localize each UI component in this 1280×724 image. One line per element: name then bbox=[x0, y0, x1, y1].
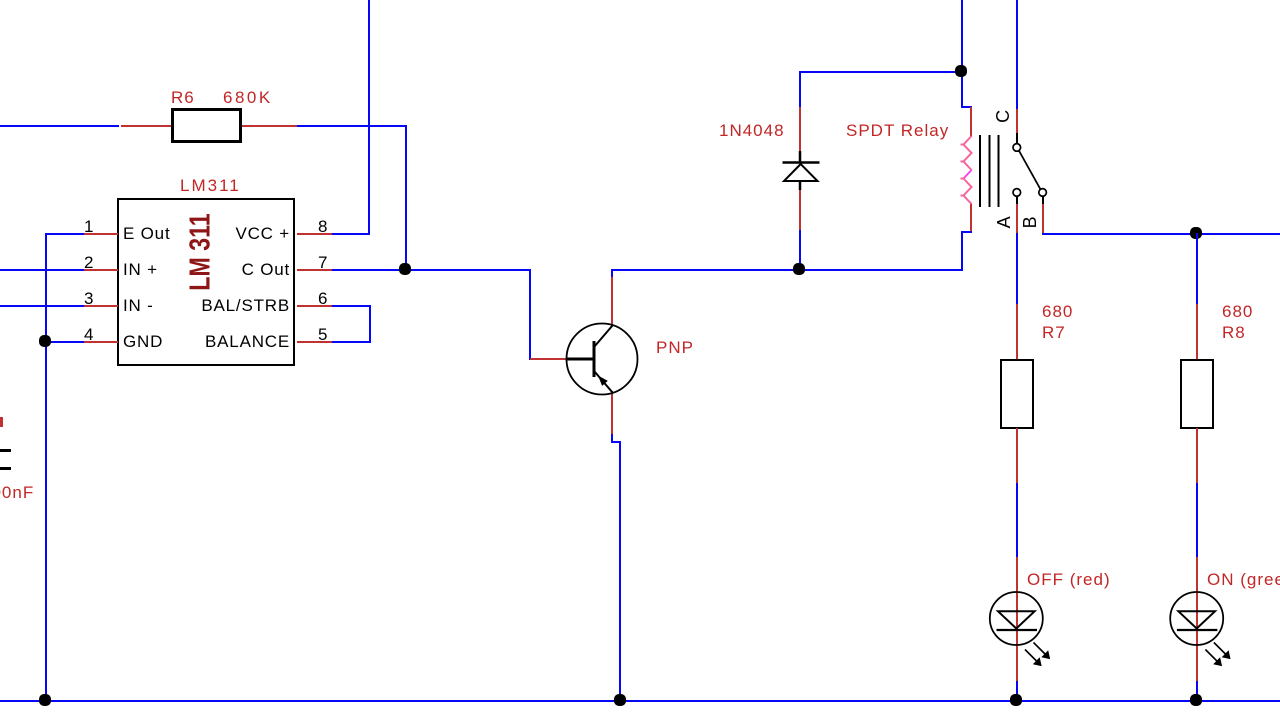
wire: LED1 bottom blue to bus bbox=[1016, 681, 1018, 701]
wire: base vertical drop bbox=[529, 269, 531, 360]
pin 6 number bbox=[318, 290, 328, 307]
wire: collector horizontal to relay bbox=[611, 269, 962, 271]
pin 7 number bbox=[318, 254, 328, 271]
wire: collector red lead bbox=[611, 277, 613, 326]
pin 1 stub bbox=[84, 233, 118, 235]
wire: contact A red lead bbox=[1016, 204, 1018, 233]
wire: emitter vertical to ground bus bbox=[619, 441, 621, 702]
wire: relay bottom blue vertical bbox=[961, 231, 963, 271]
LED D3 ON(green) bbox=[1170, 592, 1230, 666]
wire: contact B black stub bbox=[1042, 196, 1044, 205]
label SPDT Relay bbox=[846, 122, 949, 139]
label 680K bbox=[223, 89, 273, 106]
wire: A vertical blue to R7 bbox=[1016, 233, 1018, 305]
wire: contact C black stub bbox=[1016, 133, 1018, 144]
label R8 bbox=[1222, 324, 1246, 341]
label PNP bbox=[656, 339, 694, 356]
pin 8 label VCC + bbox=[150, 225, 290, 242]
wire: R6 output vertical to C Out node bbox=[405, 125, 407, 271]
wire: relay common C vertical from top bbox=[1016, 0, 1018, 110]
pin 5 number bbox=[318, 326, 328, 343]
wire: emitter red lead bbox=[611, 391, 613, 436]
pin 4 stub bbox=[84, 341, 118, 343]
node: GND junction bbox=[39, 335, 51, 347]
transistor Q1 PNP bbox=[566, 324, 638, 395]
wire: R8 top red lead bbox=[1196, 304, 1198, 359]
wire: collector blue corner bbox=[611, 269, 613, 279]
label 680 (R8) bbox=[1222, 303, 1253, 320]
label 1N4048 bbox=[719, 122, 785, 139]
pin 7 stub bbox=[297, 269, 332, 271]
IC U1 LM311 body bbox=[117, 198, 295, 366]
node: left rail-bus junction bbox=[39, 694, 51, 706]
wire: C Out horizontal to base corner bbox=[332, 269, 531, 271]
wire: diode top horizontal bbox=[800, 71, 963, 73]
pin 3 number bbox=[84, 290, 94, 307]
wire: R8 vertical blue from junction bbox=[1196, 233, 1198, 305]
wire: contact B red lead bbox=[1042, 204, 1044, 233]
wire: LED1 red lead through symbol bbox=[1016, 557, 1018, 683]
node: diode-collector junction bbox=[793, 263, 805, 275]
wire: ground bus bbox=[0, 700, 1280, 702]
capacitor (partial, off-canvas) plate 1 bbox=[0, 449, 11, 452]
pin 3 label IN - bbox=[123, 297, 154, 314]
node: LED2-bus junction bbox=[1190, 694, 1202, 706]
pin 2 label IN + bbox=[123, 261, 158, 278]
wire: B horizontal to right edge bbox=[1042, 233, 1280, 235]
wire: R7 top red lead bbox=[1016, 304, 1018, 359]
wire: pin 5 horizontal bbox=[332, 341, 370, 343]
wire: pin 3 input from left edge bbox=[0, 305, 84, 307]
wire: diode bottom red lead bbox=[799, 188, 801, 232]
pin 8 number bbox=[318, 218, 328, 235]
LED D2 OFF(red) bbox=[990, 592, 1050, 666]
pin 1 number bbox=[84, 218, 94, 235]
wire: LED2 red lead through symbol bbox=[1196, 557, 1198, 683]
wire: LED2 bottom blue to bus bbox=[1196, 681, 1198, 701]
resistor R8 body bbox=[1180, 359, 1214, 429]
pin 4 label GND bbox=[123, 333, 163, 350]
wire: R6 right lead bbox=[242, 125, 297, 127]
node: LED1-bus junction bbox=[1010, 694, 1022, 706]
wire: supply vertical from top to relay bbox=[961, 0, 963, 108]
wire: relay coil bottom step bbox=[961, 231, 972, 233]
wire: VCC vertical from top bbox=[368, 0, 370, 235]
pin 2 stub bbox=[84, 269, 118, 271]
wire: relay coil bottom red lead bbox=[970, 203, 972, 232]
pin 6 stub bbox=[297, 305, 332, 307]
wire: relay coil top red lead bbox=[970, 107, 972, 137]
label LM311 title bbox=[180, 177, 241, 194]
relay K1 contacts bbox=[1013, 144, 1046, 197]
wire: contact C red lead bbox=[1016, 109, 1018, 134]
resistor R6 body bbox=[171, 108, 242, 143]
wire: emitter step vertical bbox=[611, 434, 613, 443]
wire: pin 1 to left vertical bbox=[46, 233, 84, 235]
wire: R8-LED2 blue segment bbox=[1196, 483, 1198, 559]
wire: left input to R6 bbox=[0, 125, 119, 127]
pin 3 stub bbox=[84, 305, 118, 307]
relay K1 core bars bbox=[980, 135, 999, 207]
wire: R7-LED1 blue segment bbox=[1016, 483, 1018, 559]
label C rotated bbox=[994, 109, 1012, 123]
resistor R7 body bbox=[1000, 359, 1034, 429]
wire: diode top red lead bbox=[799, 107, 801, 152]
wire: pin8 to VCC vertical bbox=[332, 233, 370, 235]
label LM 311 rotated bbox=[187, 213, 216, 290]
label B rotated bbox=[1021, 216, 1039, 229]
wire: R8 bottom red lead bbox=[1196, 428, 1198, 484]
pin 4 number bbox=[84, 326, 94, 343]
wire: pin 2 input from left edge bbox=[0, 269, 84, 271]
node: emitter-bus junction bbox=[614, 694, 626, 706]
wire: R6 left lead bbox=[121, 125, 171, 127]
pin 7 label C Out bbox=[150, 261, 290, 278]
pin 8 stub bbox=[297, 233, 332, 235]
wire: emitter step horizontal bbox=[611, 441, 621, 443]
wire: R7 bottom red lead bbox=[1016, 428, 1018, 484]
wire: relay coil top step bbox=[961, 106, 972, 108]
wire: contact A black stub bbox=[1016, 196, 1018, 205]
capacitor label fragment (red mark) bbox=[0, 417, 3, 427]
pin 5 stub bbox=[297, 341, 332, 343]
pin 5 label BALANCE bbox=[150, 333, 290, 350]
node: C Out junction bbox=[399, 263, 411, 275]
pin 2 number bbox=[84, 254, 94, 271]
wire: diode top blue vertical bbox=[799, 71, 801, 109]
diode D1 1N4048 bbox=[783, 151, 820, 190]
wire: pin 6 horizontal bbox=[332, 305, 370, 307]
relay K1 coil bbox=[961, 136, 972, 204]
wire: R6 output horizontal bbox=[297, 125, 407, 127]
node: relay top junction bbox=[955, 65, 967, 77]
label OFF (red) bbox=[1027, 571, 1111, 588]
pin 6 label BAL/STRB bbox=[150, 297, 290, 314]
wire: pin 4 to left vertical bbox=[46, 341, 84, 343]
capacitor (partial, off-canvas) plate 2 bbox=[0, 467, 11, 470]
label A rotated bbox=[995, 216, 1013, 229]
wire: diode bottom blue vertical bbox=[799, 230, 801, 271]
label R6 bbox=[171, 89, 195, 106]
label ON (green) bbox=[1207, 571, 1280, 588]
label R7 bbox=[1042, 324, 1066, 341]
capacitor value 100nF (partial) bbox=[0, 484, 34, 501]
wire: base red lead bbox=[530, 358, 567, 360]
pin 1 label E Out bbox=[123, 225, 170, 242]
label 680 (R7) bbox=[1042, 303, 1073, 320]
wire: left vertical rail x=46 bbox=[45, 233, 47, 702]
wire: pin6-pin5 loop vertical bbox=[369, 305, 371, 343]
node: B-R8 junction bbox=[1190, 227, 1202, 239]
